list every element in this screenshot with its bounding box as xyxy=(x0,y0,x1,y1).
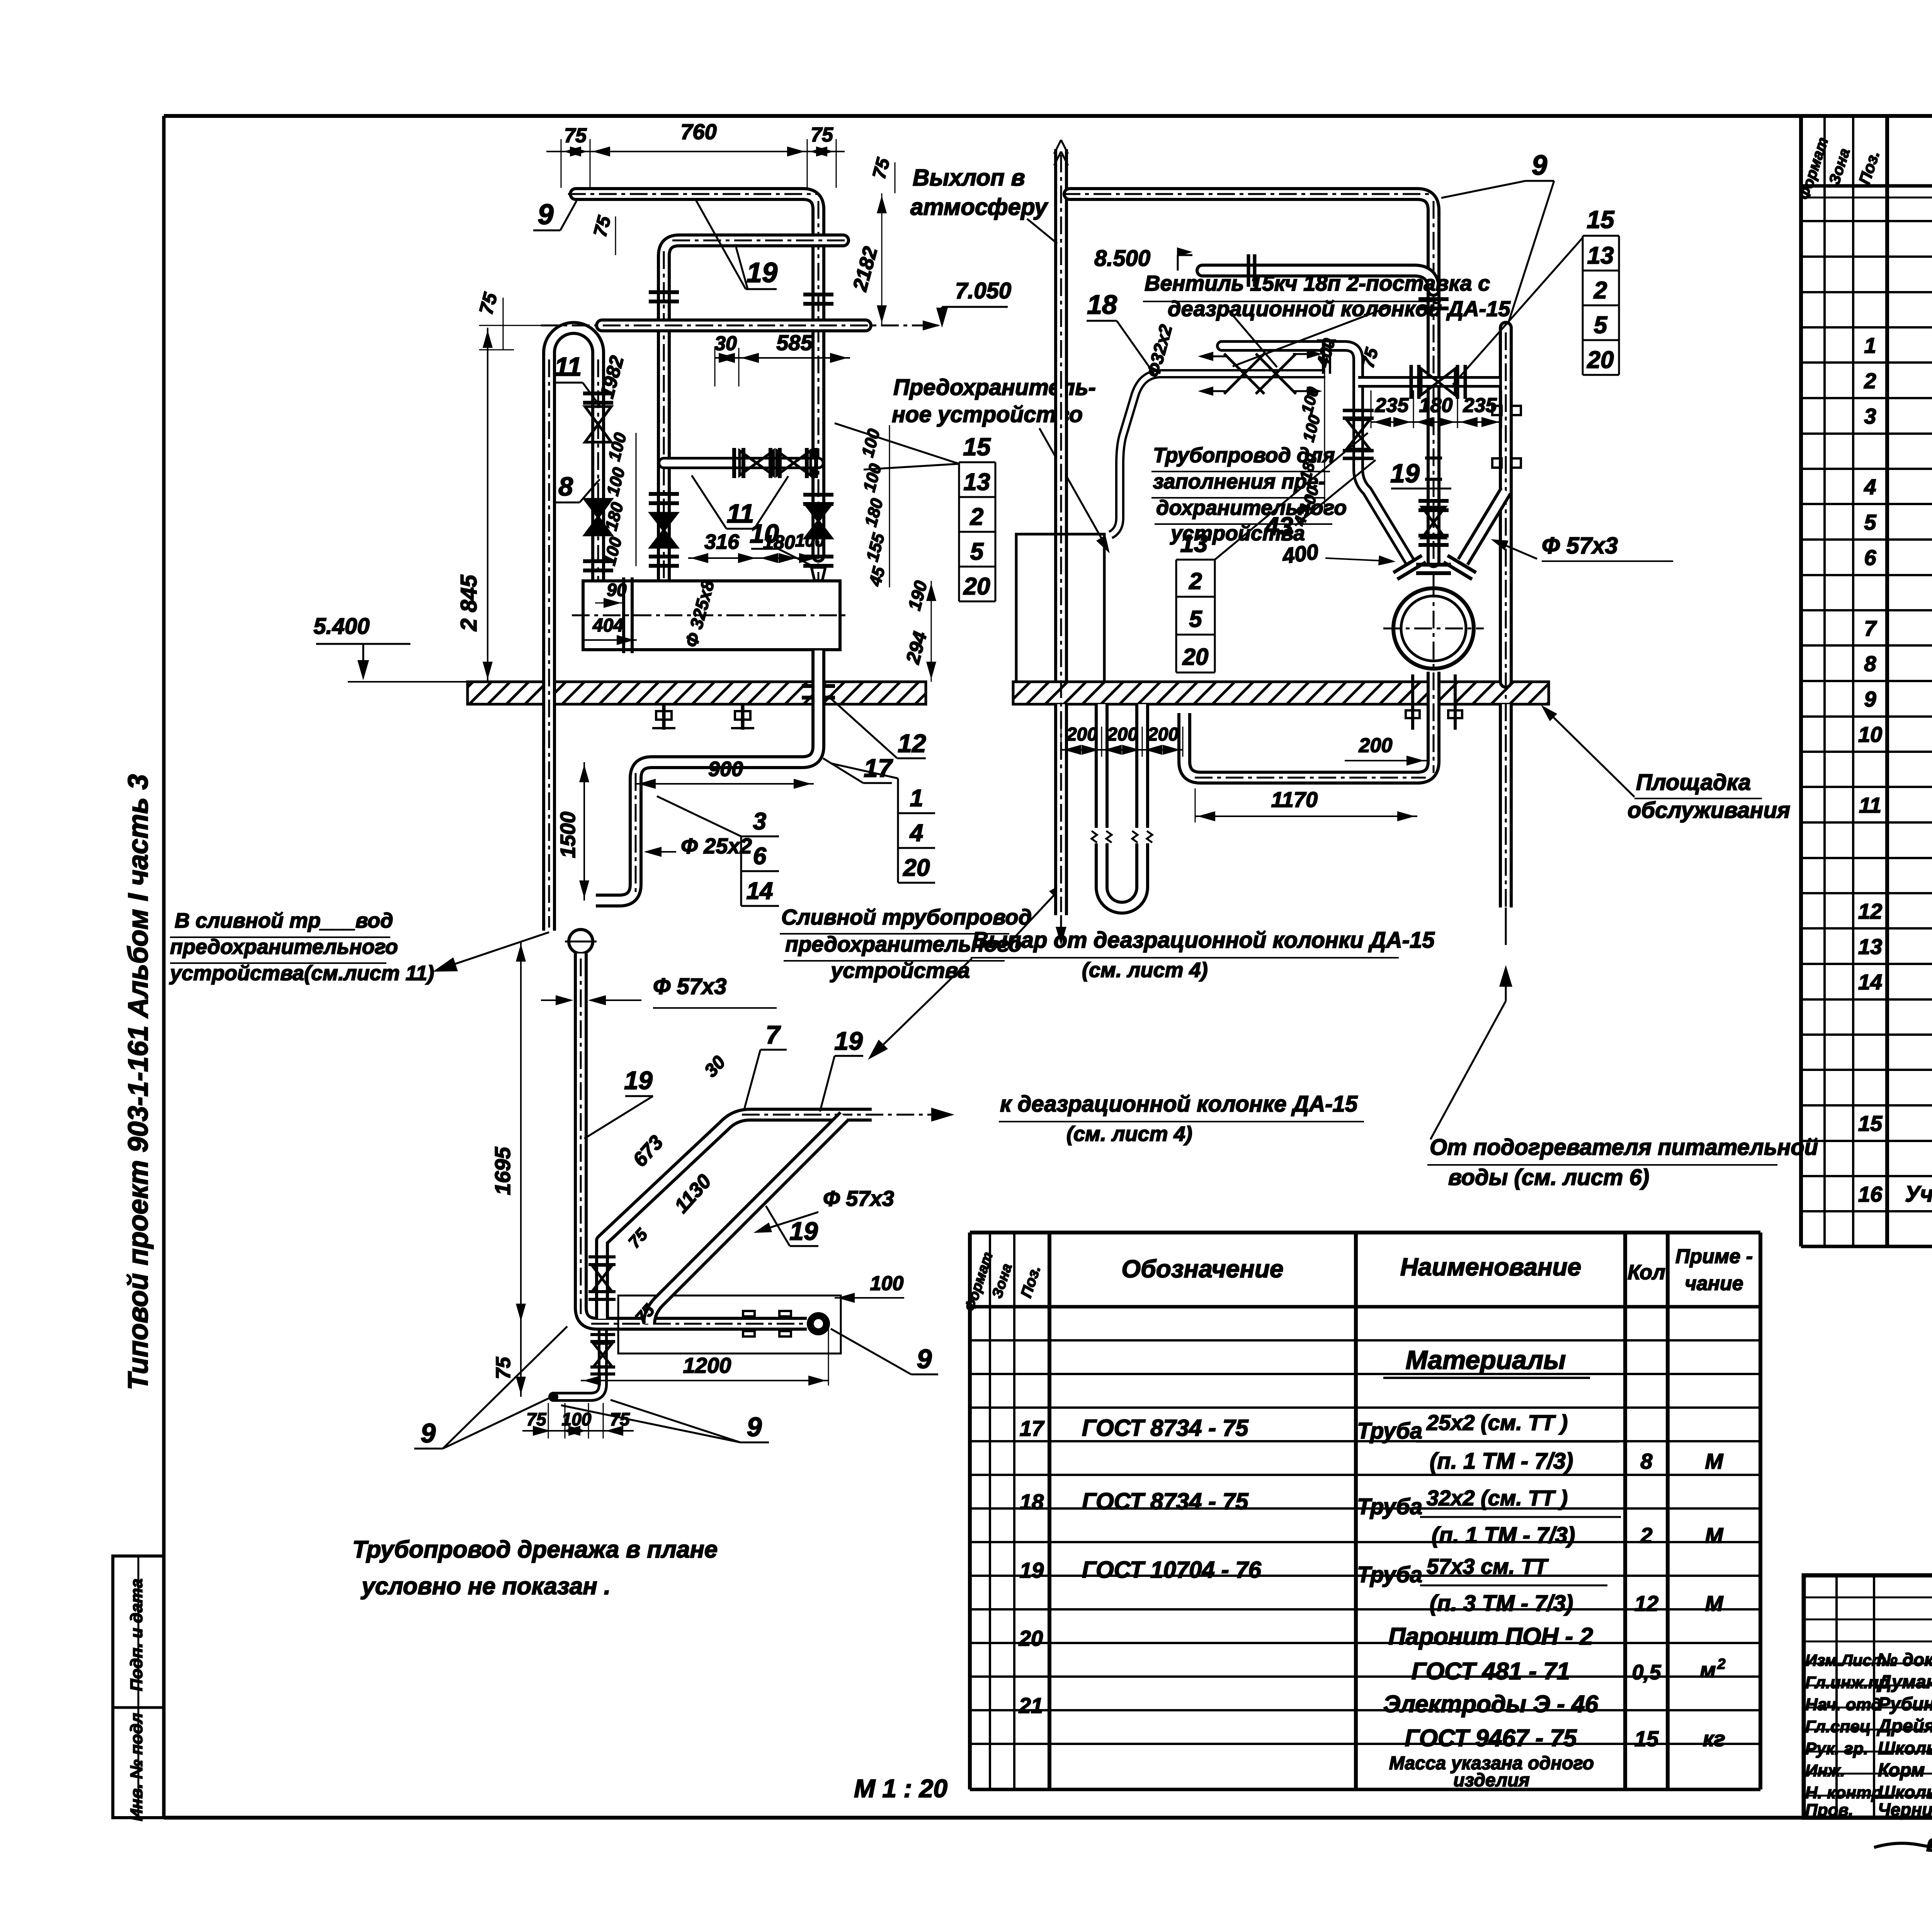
level 8.500 xyxy=(1094,246,1192,271)
X valve 1 xyxy=(1198,352,1264,396)
dims 30 585 xyxy=(714,330,850,386)
specification table grid xyxy=(1801,116,1932,1246)
label F57x3 on D2 xyxy=(753,1186,894,1233)
dims 235 180 235 xyxy=(1371,390,1502,428)
svg-text:13: 13 xyxy=(1587,242,1614,269)
diagonal pipe D2 xyxy=(649,1116,844,1324)
level 7.050 flag xyxy=(936,278,1011,328)
label 17 xyxy=(823,754,893,783)
dim 1170 xyxy=(1195,787,1417,822)
svg-text:М: М xyxy=(1705,1591,1724,1616)
diagonal D_R from riser to circle xyxy=(1463,491,1506,562)
label 10 xyxy=(750,519,811,565)
svg-text:0,5: 0,5 xyxy=(1632,1661,1661,1684)
dim 1200 xyxy=(581,1326,828,1386)
svg-text:Выхлоп в: Выхлоп в xyxy=(913,165,1025,191)
svg-text:Гл.инж.пр: Гл.инж.пр xyxy=(1805,1673,1889,1692)
svg-text:кг: кг xyxy=(1703,1726,1725,1751)
svg-text:13: 13 xyxy=(1180,529,1207,557)
dim 1695 xyxy=(490,941,526,1324)
label F57x3 right fig xyxy=(1491,533,1673,561)
svg-text:8: 8 xyxy=(1640,1449,1653,1473)
title block texts xyxy=(1805,1590,1932,1820)
svg-text:200: 200 xyxy=(1147,724,1179,745)
dim 100 plan right xyxy=(835,1272,904,1303)
OVA-2 circle top view xyxy=(1383,580,1484,678)
svg-text:В сливной тр___вод: В сливной тр___вод xyxy=(175,909,393,932)
valve V11a on riser xyxy=(583,393,613,442)
anchor bolts under tank xyxy=(652,704,754,730)
svg-text:75: 75 xyxy=(811,124,833,146)
svg-text:4: 4 xyxy=(1864,475,1876,499)
scale M1:20 xyxy=(854,1774,947,1803)
svg-text:5.400: 5.400 xyxy=(313,614,369,639)
label 8 xyxy=(553,472,600,502)
svg-text:ГОСТ 481 - 71: ГОСТ 481 - 71 xyxy=(1412,1658,1570,1685)
svg-text:15: 15 xyxy=(1634,1726,1659,1751)
svg-text:12: 12 xyxy=(1858,899,1882,923)
dims 316 180 100 xyxy=(688,530,825,563)
note: drainage not shown xyxy=(352,1536,718,1600)
svg-text:15: 15 xyxy=(963,433,991,461)
svg-text:18: 18 xyxy=(1087,289,1117,320)
materials table content xyxy=(1019,1345,1726,1791)
svg-text:Трубопровод дренажа в пл: Трубопровод дренажа в плане xyxy=(352,1536,718,1563)
text к деаэрационной колонке xyxy=(999,1091,1364,1146)
label 9 plan mid xyxy=(561,1400,769,1442)
svg-text:2: 2 xyxy=(1189,568,1202,594)
svg-text:18: 18 xyxy=(1020,1490,1044,1514)
dim 2182 rotated xyxy=(849,193,887,325)
label 9 top left xyxy=(533,198,577,230)
svg-text:75: 75 xyxy=(526,1409,547,1429)
dim chain 400/100 rotated right fig xyxy=(1290,336,1339,528)
svg-text:Инж.: Инж. xyxy=(1805,1761,1845,1780)
dim 90 404 tank xyxy=(583,580,637,646)
valve V11b on riser xyxy=(583,499,613,570)
dim 2845 xyxy=(456,328,493,682)
dims 200 200 200 xyxy=(1061,724,1183,757)
V0 end arrow xyxy=(1056,915,1066,945)
circle support bolts xyxy=(1406,674,1462,730)
svg-text:16: 16 xyxy=(1858,1182,1883,1206)
svg-text:19: 19 xyxy=(789,1217,818,1245)
svg-text:75: 75 xyxy=(492,1357,515,1379)
diagonal pipe D1 xyxy=(602,1115,872,1319)
svg-text:9: 9 xyxy=(917,1344,932,1374)
text Площадка обслуживания xyxy=(1541,705,1790,823)
svg-text:14: 14 xyxy=(1858,970,1882,994)
svg-text:ГОСТ 10704 - 76: ГОСТ 10704 - 76 xyxy=(1082,1557,1262,1583)
svg-text:5: 5 xyxy=(1594,312,1608,339)
text От подогревателя xyxy=(1427,1135,1818,1190)
couplings on V1 xyxy=(1425,458,1442,479)
dim 900 xyxy=(636,758,814,789)
svg-text:Пров.: Пров. xyxy=(1805,1801,1853,1820)
text Трубопровод для заполнения xyxy=(1151,444,1347,545)
svg-text:200: 200 xyxy=(1359,734,1393,757)
svg-text:М: М xyxy=(1705,1449,1724,1473)
svg-text:1500: 1500 xyxy=(556,812,580,858)
text Предохранительное устройство xyxy=(892,375,1110,553)
svg-text:585: 585 xyxy=(776,330,813,355)
svg-text:Материалы: Материалы xyxy=(1406,1345,1566,1375)
svg-text:19: 19 xyxy=(1020,1558,1044,1582)
svg-text:5: 5 xyxy=(1189,606,1202,632)
safety device box xyxy=(1016,534,1104,682)
plan: clamps on pipe xyxy=(743,1311,791,1336)
U-seal below floor xyxy=(1102,704,1142,908)
plan: valve assembly under elbow xyxy=(548,1331,615,1402)
centerline drain xyxy=(635,773,637,897)
reducer into tank on L1 vertical xyxy=(803,557,833,581)
svg-text:обслуживания: обслуживания xyxy=(1628,798,1790,823)
svg-text:20: 20 xyxy=(1182,644,1209,670)
text Вентиль xyxy=(1143,271,1510,367)
dim chain line left of L2 xyxy=(636,433,637,566)
svg-text:5: 5 xyxy=(1864,510,1876,534)
svg-text:От подогревателя питательной: От подогревателя питательной xyxy=(1430,1135,1818,1160)
level mark 5.400 xyxy=(313,614,468,682)
svg-text:6: 6 xyxy=(1864,545,1876,570)
pipe L2 second run xyxy=(664,240,843,580)
flange pair on L2 vertical xyxy=(649,292,679,301)
pipe U-bend tall riser xyxy=(549,328,598,931)
svg-text:13: 13 xyxy=(964,469,990,495)
svg-text:Подп. и дата: Подп. и дата xyxy=(127,1578,146,1691)
materials table headers xyxy=(962,1245,1753,1313)
svg-text:2: 2 xyxy=(1717,1656,1725,1672)
flange on B xyxy=(1248,254,1255,287)
pipe clamp at slab on drain xyxy=(802,686,835,698)
clamps on riser R xyxy=(1492,406,1521,468)
pipe H3 under floor xyxy=(1184,672,1434,778)
svg-text:10: 10 xyxy=(750,519,779,548)
svg-text:15: 15 xyxy=(1587,206,1615,233)
svg-text:8: 8 xyxy=(558,472,573,501)
svg-text:5: 5 xyxy=(970,538,984,565)
svg-text:2: 2 xyxy=(1640,1523,1652,1548)
svg-text:8.500: 8.500 xyxy=(1094,246,1150,271)
svg-text:1170: 1170 xyxy=(1271,787,1318,812)
svg-text:3: 3 xyxy=(1864,404,1876,428)
valve on Q at V1 xyxy=(1411,365,1465,399)
vent stub Rp to DA-15 xyxy=(1222,346,1358,359)
svg-text:к деазрационной колонке ДА-15: к деазрационной колонке ДА-15 xyxy=(1000,1091,1358,1117)
floor slab right (hatched) xyxy=(1013,682,1549,704)
svg-text:Думан: Думан xyxy=(1876,1672,1932,1692)
stack 15/13/2/5/20 mid xyxy=(835,423,995,601)
svg-text:(п. 1 ТМ - 7/3): (п. 1 ТМ - 7/3) xyxy=(1430,1449,1573,1474)
drain pipe from tank xyxy=(596,650,818,901)
centerline V0 + top marks xyxy=(1054,140,1068,912)
svg-text:17: 17 xyxy=(1020,1416,1045,1440)
stack 1/4/20 xyxy=(831,763,935,883)
label 9 plan left xyxy=(414,1326,567,1449)
svg-text:20: 20 xyxy=(963,573,990,600)
stack 15/13/2/5/20 right xyxy=(1453,206,1619,385)
svg-text:Вентиль 15кч 18п 2-поставка с: Вентиль 15кч 18п 2-поставка с xyxy=(1145,271,1490,295)
V2 valve chain xyxy=(1343,410,1374,458)
svg-text:Сливной трубопровод: Сливной трубопровод xyxy=(781,905,1032,929)
svg-text:100: 100 xyxy=(870,1272,904,1295)
flange on D_R xyxy=(1444,555,1476,579)
plan: funnel ball xyxy=(565,930,597,953)
plan: plate outline xyxy=(618,1296,841,1353)
svg-text:ГОСТ 8734 - 75: ГОСТ 8734 - 75 xyxy=(1082,1488,1249,1514)
dim 75 near L2 xyxy=(590,213,616,255)
dim 75 bottom rotated xyxy=(492,1324,526,1397)
svg-text:Паронит ПОН - 2: Паронит ПОН - 2 xyxy=(1388,1623,1593,1650)
dim 75 right top rotated xyxy=(869,155,895,193)
svg-text:75: 75 xyxy=(564,124,587,147)
svg-text:9: 9 xyxy=(747,1412,762,1442)
svg-text:м: м xyxy=(1700,1658,1716,1682)
svg-text:57х3 см. ТТ: 57х3 см. ТТ xyxy=(1427,1554,1549,1578)
label 75 rotated near Q xyxy=(1357,345,1382,370)
floor slab left (hatched) xyxy=(468,682,926,704)
svg-text:1: 1 xyxy=(910,785,923,812)
text Сливной трубопровод xyxy=(780,881,1066,982)
plan: vertical pipe 57x3 xyxy=(581,953,807,1324)
materials table grid xyxy=(970,1233,1760,1789)
V1 lower valve xyxy=(1418,501,1449,545)
svg-text:воды (см. лист 6): воды (см. лист 6) xyxy=(1448,1165,1649,1190)
R2 stub xyxy=(1317,341,1336,374)
label F32x2 rotated xyxy=(1143,322,1176,379)
svg-text:9: 9 xyxy=(1532,150,1547,181)
svg-text:404: 404 xyxy=(592,615,624,636)
svg-text:чание: чание xyxy=(1685,1272,1743,1295)
svg-text:Площадка: Площадка xyxy=(1636,770,1751,795)
svg-text:14: 14 xyxy=(747,878,773,904)
svg-text:6: 6 xyxy=(753,843,767,870)
svg-text:условно не показан .: условно не показан . xyxy=(361,1573,611,1600)
svg-text:Н. контр: Н. контр xyxy=(1805,1783,1882,1802)
svg-text:М 1 : 20: М 1 : 20 xyxy=(854,1774,947,1803)
label 400 with arrow xyxy=(1281,539,1396,569)
svg-text:9: 9 xyxy=(537,198,553,230)
leader arrow to сливной xyxy=(433,932,549,972)
svg-text:2: 2 xyxy=(1594,277,1607,304)
svg-text:19: 19 xyxy=(834,1027,863,1055)
dims 190 294 rotated xyxy=(901,579,936,682)
vertical V2 with tee to Q xyxy=(1358,358,1410,561)
valve on D1 lower end xyxy=(588,1257,616,1299)
pipe L3 long horizontal xyxy=(602,318,866,332)
svg-text:№ докум.: № докум. xyxy=(1877,1650,1932,1670)
svg-text:Ф 57х3: Ф 57х3 xyxy=(823,1186,894,1210)
svg-text:Корм: Корм xyxy=(1878,1760,1925,1781)
flange pair on L1 vertical xyxy=(803,295,833,304)
X valve 2 xyxy=(1256,349,1322,396)
svg-text:Типовой проект 903-1-161: Типовой проект 903-1-161 Альбом I часть … xyxy=(123,774,154,1390)
svg-text:20: 20 xyxy=(1587,347,1614,373)
pipe V0 exhaust riser xyxy=(1054,149,1068,915)
break marks on U-seal xyxy=(1092,828,1152,843)
label 19 right fig xyxy=(1390,459,1451,489)
specification table content xyxy=(1858,225,1932,1242)
centerline L2 xyxy=(664,240,850,580)
svg-text:11: 11 xyxy=(1859,793,1881,817)
svg-text:Ф 57х3: Ф 57х3 xyxy=(653,974,726,999)
tank OVA-2 (elevation) xyxy=(572,577,850,653)
sidebar stamp boxes xyxy=(113,1556,164,1821)
svg-text:Учреждение ЮЕ - 312/97: Учреждение ЮЕ - 312/97 xyxy=(1905,1182,1932,1207)
dim 1500 xyxy=(556,762,589,901)
pipe A top run right figure xyxy=(1070,194,1434,561)
svg-text:(см. лист 4): (см. лист 4) xyxy=(1082,958,1208,982)
specification table headers xyxy=(1796,128,1932,202)
Ф32 fill run R1 xyxy=(1161,369,1325,378)
dim chain line right of L1 xyxy=(889,425,890,587)
valves on L4 xyxy=(734,448,816,478)
label 12 slab xyxy=(828,696,926,758)
svg-text:Кол: Кол xyxy=(1628,1261,1665,1284)
svg-text:1695: 1695 xyxy=(490,1147,515,1195)
centerline R xyxy=(1505,332,1507,951)
svg-text:атмосферу: атмосферу xyxy=(910,194,1048,220)
label 19 on D2 xyxy=(766,1206,818,1246)
svg-text:1200: 1200 xyxy=(683,1353,731,1377)
svg-text:235: 235 xyxy=(1375,394,1409,417)
label 11 mid xyxy=(692,475,788,529)
svg-text:19: 19 xyxy=(1390,459,1420,488)
label 11 left xyxy=(554,352,600,406)
labels 19/7/30 on diagonals xyxy=(584,1066,653,1139)
label 9 plan right xyxy=(831,1329,938,1374)
svg-text:100: 100 xyxy=(562,1409,592,1429)
svg-text:760: 760 xyxy=(680,119,716,144)
svg-text:30: 30 xyxy=(714,332,737,355)
svg-text:100: 100 xyxy=(795,530,825,550)
dim F57x3 plan xyxy=(541,974,777,1008)
svg-text:8: 8 xyxy=(1864,651,1876,676)
svg-text:9: 9 xyxy=(1864,687,1876,711)
svg-text:изделия: изделия xyxy=(1453,1770,1530,1791)
label 43 xyxy=(1264,460,1376,540)
label F25x2 xyxy=(644,834,752,858)
dim 1982 rotated xyxy=(596,353,628,400)
rotated dim chain left of L2 xyxy=(600,431,630,567)
svg-text:12: 12 xyxy=(898,729,926,758)
svg-text:19: 19 xyxy=(747,257,777,288)
centerline L1 xyxy=(568,194,818,580)
riser R right xyxy=(1499,328,1513,907)
handwriting under title block xyxy=(1874,1826,1932,1864)
svg-text:Ф 57х3: Ф 57х3 xyxy=(1542,533,1618,558)
svg-text:90: 90 xyxy=(607,580,627,600)
svg-text:Дрейя: Дрейя xyxy=(1876,1716,1932,1737)
svg-text:2 845: 2 845 xyxy=(456,575,481,632)
centerline D1 arrow to DA-15 xyxy=(742,1108,954,1122)
svg-text:предохранительного: предохранительного xyxy=(170,935,398,958)
svg-text:4: 4 xyxy=(909,820,923,846)
label 9 top right xyxy=(1441,150,1554,325)
svg-text:Гл.спец: Гл.спец xyxy=(1805,1717,1871,1736)
pipe L4 valve run xyxy=(664,457,818,469)
svg-text:12: 12 xyxy=(1634,1591,1658,1616)
svg-text:(п. 3 ТМ - 7/3): (п. 3 ТМ - 7/3) xyxy=(1430,1591,1573,1616)
rotated dim chain right of L1 xyxy=(858,427,889,588)
svg-text:10: 10 xyxy=(1858,722,1882,746)
svg-text:Рубинс: Рубинс xyxy=(1878,1694,1932,1714)
svg-text:устройства: устройства xyxy=(830,958,970,982)
text Выхлоп в атмосферу xyxy=(910,165,1057,243)
svg-text:М: М xyxy=(1705,1523,1724,1548)
svg-text:200: 200 xyxy=(1066,724,1097,745)
svg-text:13: 13 xyxy=(1858,934,1882,958)
valve on L1 vertical xyxy=(803,495,833,538)
svg-text:19: 19 xyxy=(624,1066,653,1095)
dim 200 right xyxy=(1345,734,1427,766)
svg-text:Рук. гр.: Рук. гр. xyxy=(1805,1739,1868,1758)
flange pair on V1 xyxy=(1418,299,1449,308)
plan: end ring xyxy=(807,1312,830,1335)
svg-text:15: 15 xyxy=(1858,1111,1883,1136)
svg-text:ГОСТ 9467 - 75: ГОСТ 9467 - 75 xyxy=(1405,1725,1577,1752)
svg-text:180: 180 xyxy=(1419,394,1453,417)
svg-text:Труба: Труба xyxy=(1357,1494,1422,1519)
svg-text:11: 11 xyxy=(554,352,582,381)
svg-text:25х2 (см. ТТ ): 25х2 (см. ТТ ) xyxy=(1426,1410,1568,1435)
svg-text:9: 9 xyxy=(421,1418,436,1448)
svg-text:Труба: Труба xyxy=(1357,1562,1422,1587)
svg-text:Трубопровод для: Трубопровод для xyxy=(1153,444,1335,467)
svg-text:ГОСТ 8734 - 75: ГОСТ 8734 - 75 xyxy=(1082,1415,1249,1441)
svg-text:Выпар от деазрационной колонки: Выпар от деазрационной колонки ДА-15 xyxy=(972,928,1435,953)
label 19 xyxy=(696,199,777,289)
V1 circle flange xyxy=(1416,565,1451,573)
svg-text:Труба: Труба xyxy=(1357,1418,1422,1444)
R1 S-pipe to box xyxy=(1111,374,1161,535)
svg-text:(п. 1 ТМ - 7/3): (п. 1 ТМ - 7/3) xyxy=(1432,1523,1575,1548)
valve on L2 vertical xyxy=(649,494,679,566)
svg-text:316: 316 xyxy=(704,530,740,553)
svg-text:7: 7 xyxy=(766,1020,781,1049)
svg-text:2: 2 xyxy=(1864,368,1876,393)
svg-text:Обозначение: Обозначение xyxy=(1121,1255,1283,1283)
label 18 xyxy=(1087,289,1154,373)
svg-text:(см. лист 4): (см. лист 4) xyxy=(1066,1122,1192,1146)
svg-text:235: 235 xyxy=(1463,394,1497,417)
svg-text:7.050: 7.050 xyxy=(955,278,1011,303)
text В сливной трубопровод xyxy=(169,909,434,985)
svg-text:2: 2 xyxy=(970,504,983,530)
svg-text:деазрационной колонкой ДА-15: деазрационной колонкой ДА-15 xyxy=(1168,296,1510,321)
dim 75 upper-left rotated xyxy=(475,290,541,350)
svg-text:Школьников: Школьников xyxy=(1878,1738,1932,1758)
svg-text:200: 200 xyxy=(1107,724,1138,745)
svg-text:32х2 (см. ТТ ): 32х2 (см. ТТ ) xyxy=(1427,1486,1568,1510)
svg-text:20: 20 xyxy=(1019,1626,1043,1650)
centerline A xyxy=(1063,194,1434,580)
circle flange left xyxy=(1393,555,1426,579)
svg-text:Приме -: Приме - xyxy=(1675,1245,1753,1268)
centerline plan pipe xyxy=(581,958,819,1324)
pipe B 8.500 stub xyxy=(1202,271,1434,290)
svg-text:3: 3 xyxy=(753,808,766,835)
svg-text:устройства(см.лист 11): устройства(см.лист 11) xyxy=(169,962,434,985)
svg-text:Черник: Черник xyxy=(1878,1800,1932,1820)
svg-text:Наименование: Наименование xyxy=(1400,1253,1581,1281)
stack 3/6/14 xyxy=(657,796,779,906)
top dims 75 760 75 xyxy=(546,119,845,188)
dims 75 100 75 under stub xyxy=(522,1403,634,1439)
centerline H3 xyxy=(1195,672,1434,778)
svg-text:Нач. отд: Нач. отд xyxy=(1805,1695,1881,1714)
text Выпар от колонки xyxy=(868,928,1435,1060)
